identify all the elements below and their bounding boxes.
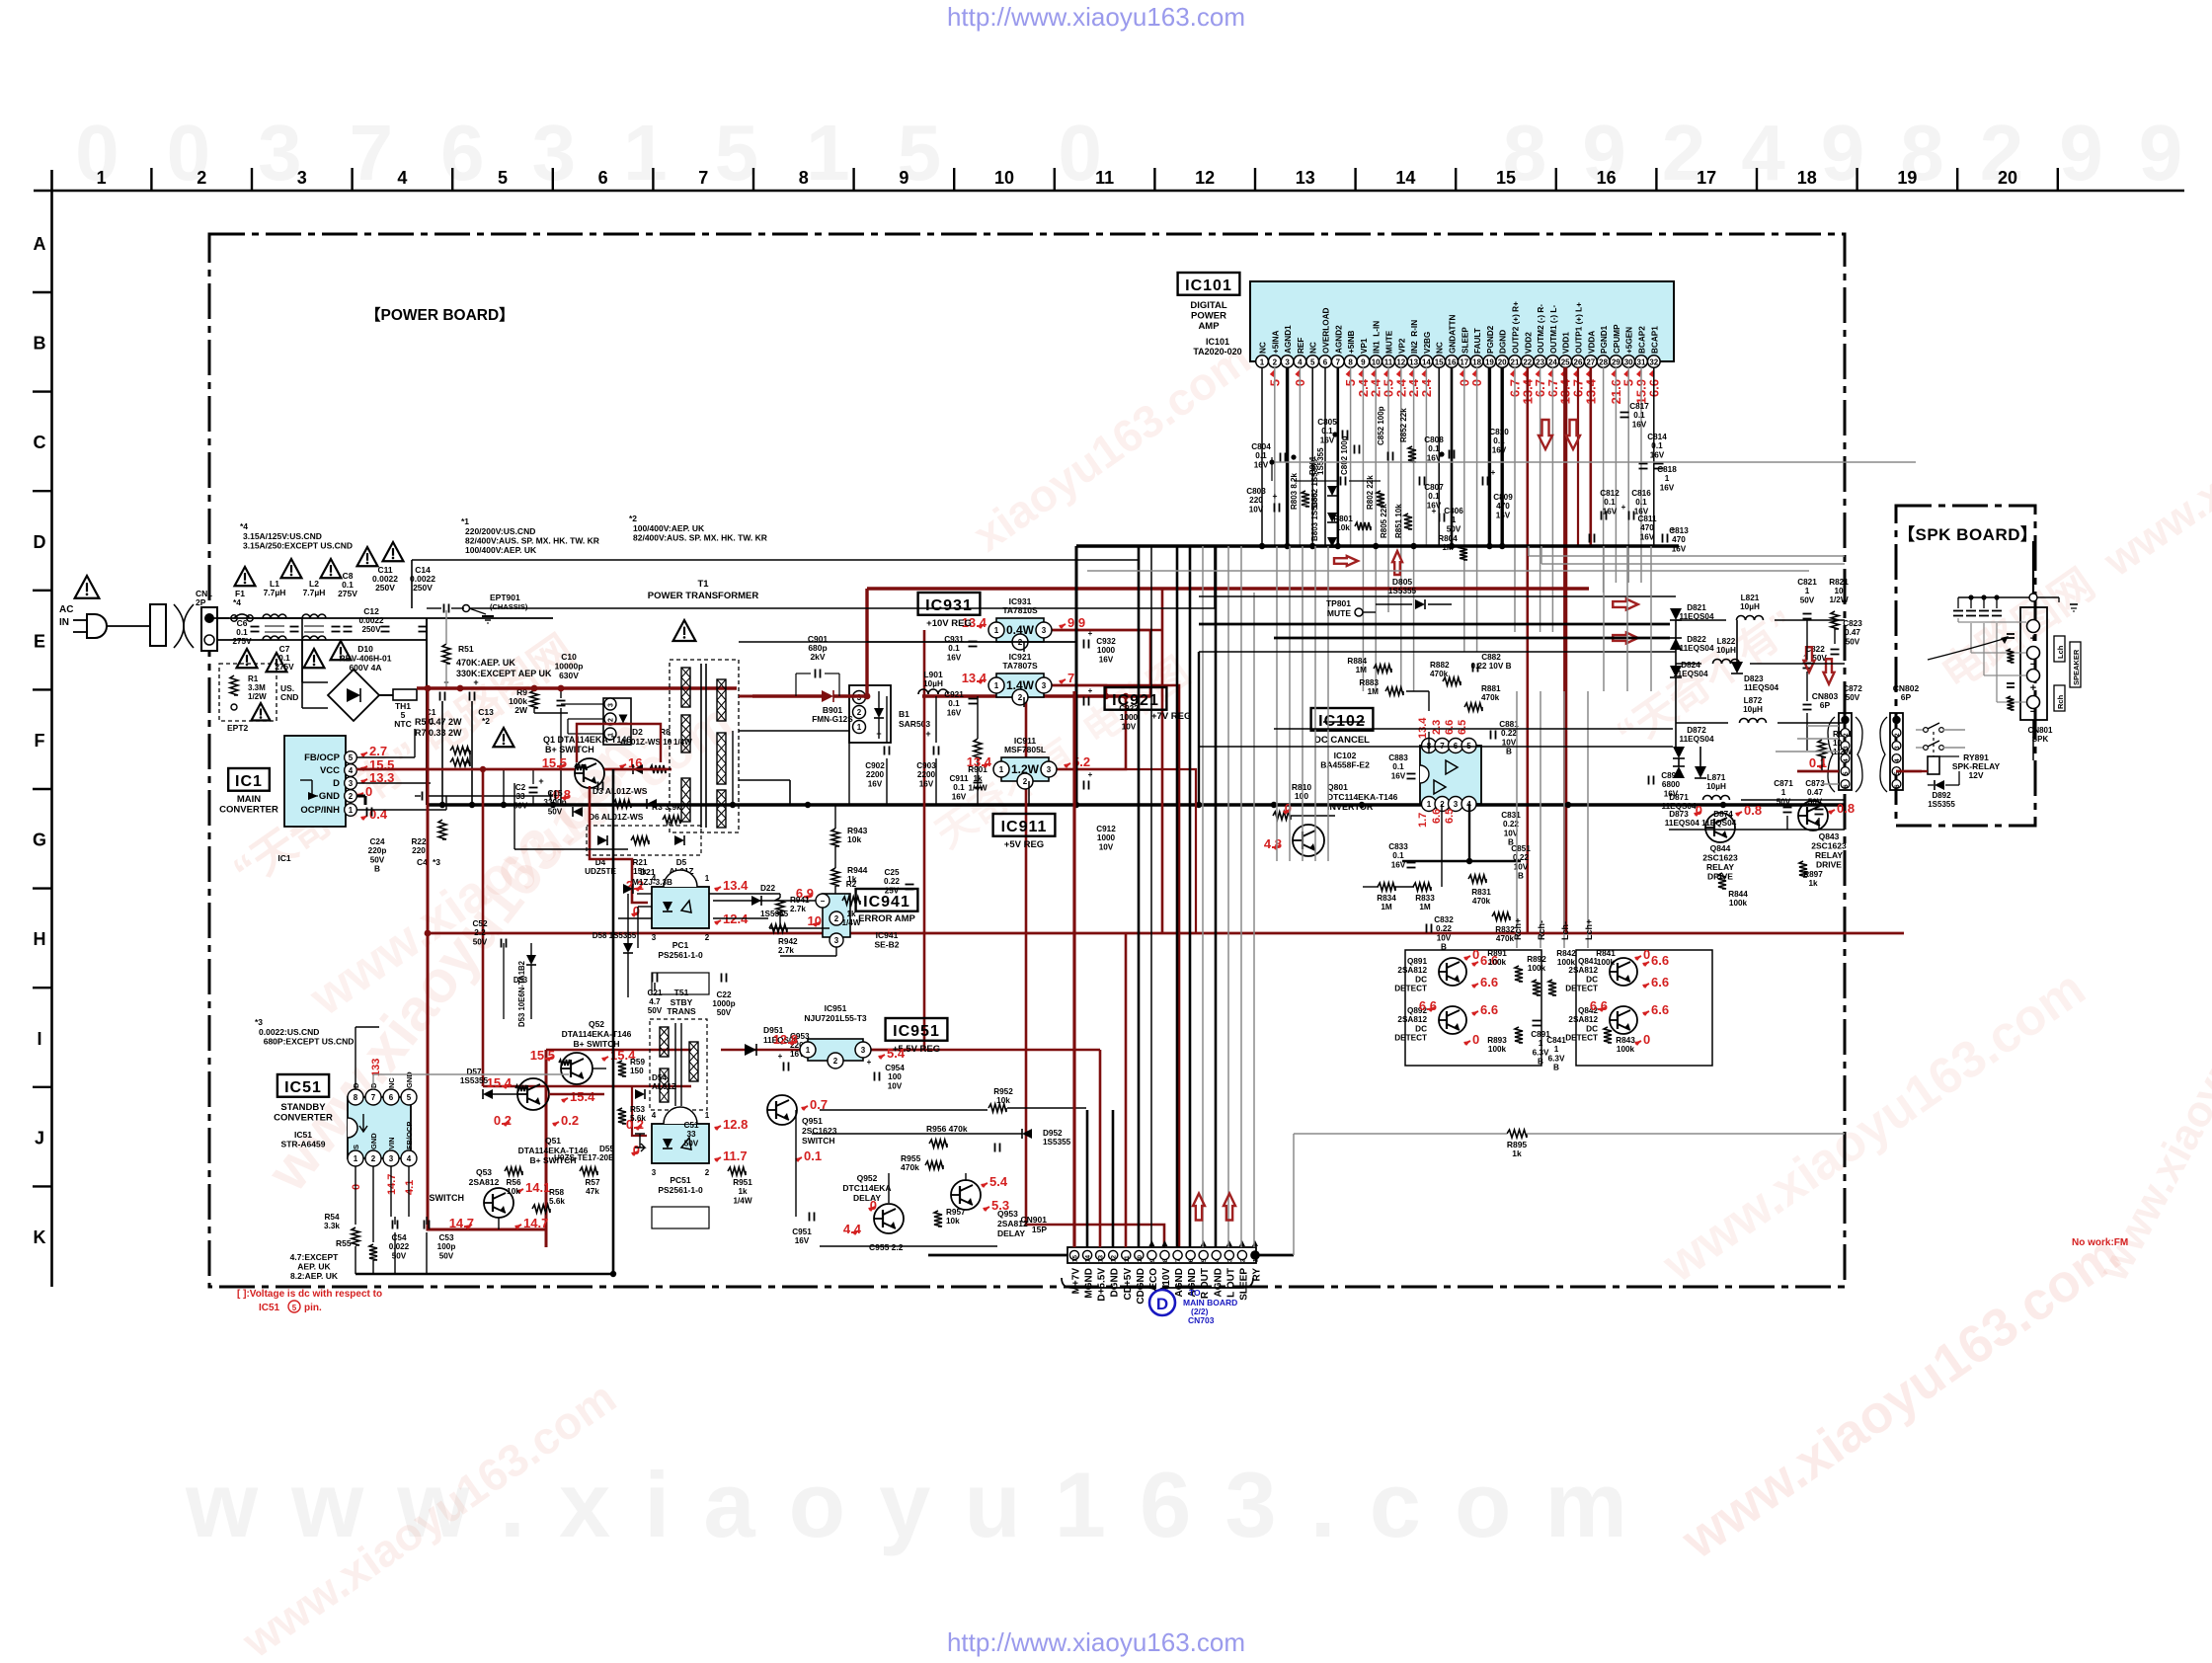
switch contacts RY891 xyxy=(1916,723,1965,756)
svg-text:16V: 16V xyxy=(1664,789,1679,798)
svg-text:1: 1 xyxy=(349,806,354,815)
svg-text:12: 12 xyxy=(1195,168,1215,188)
svg-text:470: 470 xyxy=(1672,535,1686,544)
svg-text:D822: D822 xyxy=(1687,635,1706,644)
regulator IC931 +10V xyxy=(962,596,1085,650)
power board dashed frame xyxy=(209,234,1845,1287)
surge absorber B1 SAR503 xyxy=(849,685,930,743)
svg-text:16V: 16V xyxy=(1650,450,1665,459)
svg-text:2: 2 xyxy=(705,933,710,942)
rectifier diodes D821-D874 xyxy=(1661,603,1778,828)
transistor Q953 delay xyxy=(934,1174,1028,1238)
svg-text:0.1: 0.1 xyxy=(1809,755,1827,770)
svg-text:11EQS04: 11EQS04 xyxy=(1679,644,1713,653)
svg-text:+: + xyxy=(538,776,543,786)
svg-text:250V: 250V xyxy=(375,583,395,593)
svg-text:R51: R51 xyxy=(458,644,474,654)
svg-text:12V: 12V xyxy=(1968,770,1983,780)
svg-text:C809: C809 xyxy=(1493,493,1513,502)
svg-text:2: 2 xyxy=(1843,733,1850,737)
svg-text:NC: NC xyxy=(1309,342,1318,354)
svg-text:18: 18 xyxy=(1472,358,1481,367)
svg-text:1000: 1000 xyxy=(1120,713,1139,722)
svg-text:5.6k: 5.6k xyxy=(549,1197,565,1206)
svg-text:C802 100p: C802 100p xyxy=(1340,436,1349,475)
svg-text:C814: C814 xyxy=(1647,433,1667,441)
svg-text:C911: C911 xyxy=(949,774,969,783)
svg-text:Q891: Q891 xyxy=(1407,957,1427,966)
svg-text:16V: 16V xyxy=(947,708,962,717)
svg-text:2: 2 xyxy=(833,1057,838,1066)
svg-text:AEP. UK: AEP. UK xyxy=(297,1262,331,1272)
thermistor TH1 xyxy=(379,689,417,729)
svg-text:+7V REG: +7V REG xyxy=(1151,711,1191,722)
svg-text:CN901: CN901 xyxy=(1021,1215,1048,1225)
svg-text:R882: R882 xyxy=(1430,661,1450,670)
connector CN803 6P xyxy=(1812,691,1862,792)
svg-text:AMP: AMP xyxy=(1198,321,1220,332)
svg-text:BCAP1: BCAP1 xyxy=(1650,326,1659,354)
svg-text:D892: D892 xyxy=(1932,791,1951,800)
svg-text:1S5355: 1S5355 xyxy=(1388,587,1417,595)
svg-text:GND: GND xyxy=(319,791,340,802)
svg-text:TP801: TP801 xyxy=(1326,598,1351,608)
svg-text:T51: T51 xyxy=(674,988,689,997)
svg-text:K: K xyxy=(34,1227,46,1247)
svg-text:6.6: 6.6 xyxy=(1431,809,1443,824)
svg-text:5: 5 xyxy=(292,1304,297,1312)
svg-text:D823: D823 xyxy=(1744,674,1764,683)
svg-text:10: 10 xyxy=(994,168,1014,188)
svg-text:6.6: 6.6 xyxy=(1651,975,1669,990)
svg-text:26: 26 xyxy=(1574,358,1583,367)
svg-text:C10: C10 xyxy=(561,652,577,662)
svg-text:6.6: 6.6 xyxy=(1590,998,1608,1013)
cap C52 diode D53 xyxy=(472,919,536,1027)
note *1 voltage variants xyxy=(461,516,599,555)
svg-text:16V: 16V xyxy=(868,779,883,788)
svg-text:100k: 100k xyxy=(1729,899,1748,908)
svg-text:B: B xyxy=(1506,748,1512,756)
svg-text:150: 150 xyxy=(630,1067,644,1075)
svg-text:+: + xyxy=(778,1052,783,1061)
svg-text:*1: *1 xyxy=(461,516,469,526)
svg-text:NJU7201L55-T3: NJU7201L55-T3 xyxy=(804,1013,867,1023)
svg-text:POWER TRANSFORMER: POWER TRANSFORMER xyxy=(648,591,759,601)
svg-text:10V: 10V xyxy=(1502,738,1517,747)
svg-text:4: 4 xyxy=(1894,758,1901,762)
svg-text:AL01Z: AL01Z xyxy=(652,1082,676,1091)
svg-text:Q843: Q843 xyxy=(1819,831,1840,841)
svg-text:CN801: CN801 xyxy=(2028,726,2053,735)
svg-text:1: 1 xyxy=(705,874,710,883)
IC921 label box xyxy=(1105,687,1192,722)
svg-text:1: 1 xyxy=(1554,1045,1559,1054)
svg-text:TO: TO xyxy=(1189,1288,1201,1298)
svg-text:14: 14 xyxy=(1422,358,1431,367)
svg-text:50V: 50V xyxy=(370,855,385,864)
R56 R57 resistors xyxy=(505,1167,600,1196)
svg-text:C955 2.2: C955 2.2 xyxy=(869,1242,904,1252)
svg-text:C951: C951 xyxy=(792,1227,812,1236)
svg-text:AL01Z-WS 10: AL01Z-WS 10 xyxy=(620,738,672,747)
svg-text:0.1: 0.1 xyxy=(278,654,290,663)
Q951 switch transistor xyxy=(767,1095,837,1163)
svg-text:0.2: 0.2 xyxy=(494,1113,512,1128)
svg-text:0.47: 0.47 xyxy=(1845,628,1860,637)
svg-text:R7 0.33 2W: R7 0.33 2W xyxy=(415,728,462,738)
svg-text:6: 6 xyxy=(389,1093,394,1102)
svg-text:TA7807S: TA7807S xyxy=(1002,661,1038,671)
svg-text:B+ SWITCH: B+ SWITCH xyxy=(545,745,594,754)
inductors L821 L822 L872 L871 xyxy=(1703,594,1767,800)
svg-text:CONVERTER: CONVERTER xyxy=(274,1113,333,1124)
svg-text:1M: 1M xyxy=(1368,687,1380,696)
svg-text:10k: 10k xyxy=(1336,523,1350,532)
svg-text:4.4: 4.4 xyxy=(843,1222,862,1236)
svg-text:31: 31 xyxy=(1637,358,1646,367)
svg-text:CND: CND xyxy=(280,692,298,702)
svg-text:B803 1S5355: B803 1S5355 xyxy=(1310,493,1319,541)
svg-text:1/2W: 1/2W xyxy=(1829,595,1848,604)
svg-text:IC941: IC941 xyxy=(876,930,899,940)
svg-text:CD+5V: CD+5V xyxy=(1123,1268,1134,1301)
line filter (F1,L1,L2,C6-C14) xyxy=(217,542,435,672)
svg-text:12.8: 12.8 xyxy=(773,1032,798,1047)
wires PC1/IC941 xyxy=(618,894,836,956)
svg-text:VIN: VIN xyxy=(387,1137,396,1149)
bridge rectifier D10 xyxy=(302,618,392,721)
svg-text:25: 25 xyxy=(1561,358,1570,367)
svg-text:100: 100 xyxy=(1295,791,1308,801)
svg-text:SWITCH: SWITCH xyxy=(430,1193,465,1203)
svg-text:D10: D10 xyxy=(357,644,373,654)
svg-text:2: 2 xyxy=(349,792,354,801)
svg-text:IN: IN xyxy=(59,617,69,628)
connector CN1 2P xyxy=(196,589,217,651)
svg-text:7: 7 xyxy=(1336,358,1341,367)
svg-text:U0ZS-TE17-20B: U0ZS-TE17-20B xyxy=(554,1153,614,1162)
svg-text:CDGND: CDGND xyxy=(1136,1268,1146,1305)
svg-text:3: 3 xyxy=(1047,765,1052,774)
svg-text:4.1: 4.1 xyxy=(404,1180,416,1195)
svg-text:10V: 10V xyxy=(1099,842,1114,851)
cap C10 10000p xyxy=(555,652,584,769)
svg-text:1: 1 xyxy=(994,681,999,690)
svg-text:100k: 100k xyxy=(1597,958,1616,967)
svg-text:IC941: IC941 xyxy=(863,894,910,911)
svg-text:15.5: 15.5 xyxy=(530,1048,555,1063)
svg-text:+: + xyxy=(473,677,478,687)
svg-text:0.22: 0.22 xyxy=(1501,729,1517,738)
svg-text:GND: GND xyxy=(369,1133,378,1149)
svg-text:+: + xyxy=(1491,468,1496,477)
svg-text:D805: D805 xyxy=(1392,577,1413,587)
svg-text:NC: NC xyxy=(387,1077,396,1088)
svg-text:7.7µH: 7.7µH xyxy=(303,588,326,597)
caps C821-C873 resistors R821 R871 xyxy=(1774,578,1862,815)
signal wires Rch/Lch xyxy=(1513,691,1594,948)
svg-text:C816: C816 xyxy=(1631,489,1651,498)
svg-text:SAR503: SAR503 xyxy=(899,719,930,729)
R844 resistor xyxy=(1718,873,1748,908)
svg-text:DIGITAL: DIGITAL xyxy=(1190,300,1226,311)
diode D951 11EQS04 xyxy=(745,1025,798,1056)
ruler grid xyxy=(33,168,2184,1287)
svg-text:Q1 DTA114EKA-T146: Q1 DTA114EKA-T146 xyxy=(543,735,631,745)
svg-text:R58: R58 xyxy=(549,1188,564,1197)
svg-text:0.1: 0.1 xyxy=(1635,498,1647,507)
wire ground bus under IC101 xyxy=(1076,543,1679,549)
svg-text:+: + xyxy=(1088,629,1093,638)
svg-text:3.3k: 3.3k xyxy=(324,1222,340,1230)
svg-text:A: A xyxy=(34,234,46,254)
IC51 voltages (red) xyxy=(351,1059,416,1195)
svg-text:2SA812: 2SA812 xyxy=(1397,1015,1427,1024)
svg-text:TA2020-020: TA2020-020 xyxy=(1193,347,1241,356)
svg-text:0.1: 0.1 xyxy=(236,628,248,637)
svg-text:C922: C922 xyxy=(1119,704,1139,713)
wires IC102 area xyxy=(1290,691,1521,887)
power board title xyxy=(365,306,514,324)
svg-text:1: 1 xyxy=(1539,1039,1543,1048)
svg-text:11EQS04: 11EQS04 xyxy=(1679,735,1713,744)
svg-text:7: 7 xyxy=(1175,1258,1182,1262)
svg-text:2SA812: 2SA812 xyxy=(1397,966,1427,975)
svg-text:3: 3 xyxy=(608,703,615,707)
svg-text:C812: C812 xyxy=(1600,489,1619,498)
svg-text:R884: R884 xyxy=(1347,657,1367,666)
svg-text:ERROR AMP: ERROR AMP xyxy=(858,913,915,924)
svg-text:+: + xyxy=(876,729,881,739)
svg-text:82/400V:AUS. SP. MX. HK. TW. K: 82/400V:AUS. SP. MX. HK. TW. KR xyxy=(633,533,767,543)
svg-text:1M: 1M xyxy=(1442,543,1454,552)
svg-text:100p: 100p xyxy=(437,1242,456,1251)
svg-text:6: 6 xyxy=(598,168,608,188)
svg-text:680P:EXCEPT US.CND: 680P:EXCEPT US.CND xyxy=(259,1037,354,1047)
svg-text:7: 7 xyxy=(1067,671,1074,685)
regulator IC911 +5V xyxy=(967,736,1090,789)
relay RY891 coil xyxy=(1922,752,2000,780)
svg-text:0.8: 0.8 xyxy=(1744,803,1762,818)
svg-text:9: 9 xyxy=(1149,1258,1156,1262)
svg-text:16V: 16V xyxy=(952,792,967,801)
svg-text:B: B xyxy=(34,334,46,354)
svg-text:D6 AL01Z-WS: D6 AL01Z-WS xyxy=(589,812,644,822)
svg-text:5: 5 xyxy=(1310,358,1315,367)
svg-text:R801: R801 xyxy=(1333,515,1353,523)
svg-text:VP2: VP2 xyxy=(1397,338,1406,354)
svg-text:PS2561-1-0: PS2561-1-0 xyxy=(658,1185,703,1195)
svg-text:10V: 10V xyxy=(1514,862,1529,871)
svg-text:2: 2 xyxy=(1023,777,1028,786)
svg-text:DRIVE: DRIVE xyxy=(1816,860,1842,870)
svg-text:R2: R2 xyxy=(846,880,857,889)
svg-text:C7: C7 xyxy=(279,644,290,654)
svg-text:MAIN: MAIN xyxy=(237,794,261,805)
svg-text:50V: 50V xyxy=(1846,637,1860,646)
svg-text:10µH: 10µH xyxy=(923,679,943,688)
svg-text:16: 16 xyxy=(1597,168,1617,188)
svg-text:10k: 10k xyxy=(996,1096,1010,1105)
svg-text:C882: C882 xyxy=(1481,653,1501,662)
svg-text:30: 30 xyxy=(1624,358,1633,367)
svg-text:+10V REG: +10V REG xyxy=(926,618,972,629)
svg-text:VDD2: VDD2 xyxy=(1524,332,1533,354)
svg-text:275V: 275V xyxy=(275,663,294,672)
node D to main board xyxy=(1149,1288,1237,1325)
svg-text:C932: C932 xyxy=(1096,637,1116,646)
svg-text:+5INB: +5INB xyxy=(1347,330,1356,354)
svg-text:NC: NC xyxy=(1259,342,1268,354)
svg-text:4: 4 xyxy=(349,766,354,775)
svg-text:1: 1 xyxy=(999,765,1004,774)
svg-text:2: 2 xyxy=(1018,693,1023,702)
svg-text:10V: 10V xyxy=(1249,505,1264,514)
svg-text:13: 13 xyxy=(1409,358,1418,367)
svg-text:82/400V:AUS. SP. MX. HK. TW. K: 82/400V:AUS. SP. MX. HK. TW. KR xyxy=(465,536,599,546)
svg-text:RELAY: RELAY xyxy=(1815,850,1843,860)
svg-text:0.1: 0.1 xyxy=(948,699,960,708)
svg-text:I: I xyxy=(37,1029,41,1049)
svg-text:R833: R833 xyxy=(1415,894,1435,903)
speaker connector CN801 and parts xyxy=(1928,541,2081,760)
svg-text:R804: R804 xyxy=(1438,534,1458,543)
resistors R943 R944 xyxy=(831,805,868,895)
svg-text:F: F xyxy=(35,731,45,751)
svg-text:15: 15 xyxy=(1072,1255,1079,1263)
svg-text:1: 1 xyxy=(1805,587,1810,595)
svg-text:7.7µH: 7.7µH xyxy=(264,588,286,597)
svg-text:DETECT: DETECT xyxy=(1394,985,1427,993)
svg-text:OUTP1 (+) L+: OUTP1 (+) L+ xyxy=(1575,302,1584,354)
svg-text:3: 3 xyxy=(1285,358,1290,367)
optocoupler PC51 xyxy=(652,1107,710,1228)
svg-text:0: 0 xyxy=(1285,801,1292,816)
svg-text:50V: 50V xyxy=(1777,797,1791,806)
svg-text:3: 3 xyxy=(1042,626,1047,635)
diode D892 xyxy=(1928,756,1959,809)
svg-text:VDD1: VDD1 xyxy=(1562,332,1571,354)
svg-text:2.2: 2.2 xyxy=(474,928,486,937)
surge absorber B1 SAR503 (primary) xyxy=(561,698,631,745)
svg-text:C841: C841 xyxy=(1546,1036,1566,1045)
svg-text:7: 7 xyxy=(698,168,708,188)
svg-text:5.4: 5.4 xyxy=(989,1174,1008,1189)
svg-text:16V: 16V xyxy=(795,1236,810,1245)
svg-text:1M: 1M xyxy=(1356,666,1368,674)
svg-text:2: 2 xyxy=(705,1168,710,1177)
svg-text:Q952: Q952 xyxy=(857,1173,878,1183)
svg-text:16V: 16V xyxy=(1632,420,1647,429)
svg-text:8.2:AEP. UK: 8.2:AEP. UK xyxy=(290,1271,339,1281)
svg-text:3: 3 xyxy=(652,933,657,942)
svg-text:17: 17 xyxy=(1460,358,1468,367)
svg-text:*4: *4 xyxy=(233,597,241,607)
svg-text:2: 2 xyxy=(371,1154,376,1163)
svg-text:1000p: 1000p xyxy=(712,999,735,1008)
regulator IC951 +5.5V xyxy=(800,1003,871,1069)
svg-text:20: 20 xyxy=(1998,168,2017,188)
svg-text:DTA114EKA-T146: DTA114EKA-T146 xyxy=(562,1029,632,1039)
svg-text:11: 11 xyxy=(1384,358,1393,367)
svg-text:10k: 10k xyxy=(847,834,861,844)
svg-text:R851 10k: R851 10k xyxy=(1394,504,1403,538)
svg-text:1M: 1M xyxy=(1419,903,1431,911)
svg-text:5: 5 xyxy=(1201,1258,1208,1262)
svg-text:100k: 100k xyxy=(1488,1045,1507,1054)
capacitor/resistor cluster under IC101 (C801-C818,R801-R805) xyxy=(1246,402,1916,560)
svg-text:0.1: 0.1 xyxy=(948,644,960,653)
svg-text:Rch+: Rch+ xyxy=(1513,918,1523,940)
svg-text:D: D xyxy=(34,532,46,552)
svg-text:470: 470 xyxy=(1496,502,1510,511)
svg-text:16V: 16V xyxy=(1640,532,1655,541)
svg-text:V2BG: V2BG xyxy=(1423,332,1432,354)
svg-text:C: C xyxy=(34,433,46,452)
svg-text:+: + xyxy=(1088,686,1093,695)
svg-text:C54: C54 xyxy=(391,1233,406,1242)
caps around regulators xyxy=(944,629,1139,851)
svg-text:2: 2 xyxy=(857,708,862,717)
svg-text:TRANS: TRANS xyxy=(667,1006,696,1016)
svg-text:AC: AC xyxy=(59,604,73,615)
svg-text:1/4W: 1/4W xyxy=(733,1196,751,1205)
svg-text:Q801: Q801 xyxy=(1327,782,1348,792)
C883 C833 caps xyxy=(1388,753,1531,881)
standby transformer T51 xyxy=(650,988,707,1110)
svg-text:R59: R59 xyxy=(630,1058,645,1067)
svg-text:0: 0 xyxy=(870,1198,877,1213)
svg-text:R1: R1 xyxy=(248,674,259,683)
svg-text:0.1: 0.1 xyxy=(1651,441,1663,450)
svg-text:*2: *2 xyxy=(482,716,490,726)
svg-text:C53: C53 xyxy=(438,1233,453,1242)
svg-text:xiaoyu163.com: xiaoyu163.com xyxy=(964,332,1260,561)
diode D57 1S5355 xyxy=(460,1068,493,1099)
svg-text:4: 4 xyxy=(1214,1258,1221,1262)
DC detect block Q841/Q842 xyxy=(1565,947,1712,1066)
svg-text:B1: B1 xyxy=(899,709,909,719)
svg-text:0.2: 0.2 xyxy=(561,1113,579,1128)
svg-text:9: 9 xyxy=(899,168,908,188)
svg-text:D53 10E6N-TA1B2: D53 10E6N-TA1B2 xyxy=(517,960,526,1027)
svg-text:1000: 1000 xyxy=(1097,833,1116,842)
svg-text:B: B xyxy=(374,865,380,874)
svg-text:B: B xyxy=(1538,1058,1543,1067)
svg-text:DETECT: DETECT xyxy=(1394,1034,1427,1043)
svg-text:16V: 16V xyxy=(947,653,962,662)
svg-text:3: 3 xyxy=(861,1046,866,1055)
svg-text:D872: D872 xyxy=(1687,726,1706,735)
svg-text:0.22: 0.22 xyxy=(884,877,900,886)
svg-text:0.22: 0.22 xyxy=(1436,924,1452,933)
svg-text:16V: 16V xyxy=(1099,655,1114,664)
svg-text:2: 2 xyxy=(834,914,839,923)
svg-text:15.4: 15.4 xyxy=(570,1089,595,1104)
svg-text:4.7:EXCEPT: 4.7:EXCEPT xyxy=(290,1252,339,1262)
svg-text:C872: C872 xyxy=(1843,684,1862,693)
svg-text:50V: 50V xyxy=(717,1008,732,1017)
svg-text:0: 0 xyxy=(1643,1032,1650,1047)
svg-text:0: 0 xyxy=(633,1143,640,1157)
svg-text:16V: 16V xyxy=(1603,507,1618,515)
svg-text:250V: 250V xyxy=(413,583,433,593)
svg-text:C25: C25 xyxy=(884,868,899,877)
svg-text:3: 3 xyxy=(834,936,839,945)
svg-text:D3 AL01Z-WS: D3 AL01Z-WS xyxy=(592,786,648,796)
svg-text:C808: C808 xyxy=(1424,436,1444,444)
